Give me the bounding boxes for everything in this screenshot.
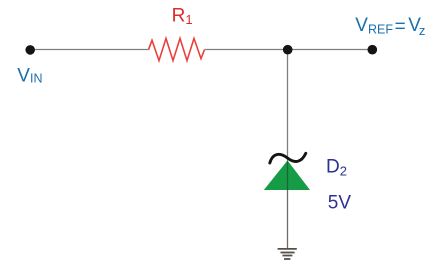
svg-text:5V: 5V [328,193,352,214]
wire: resistor R1 right lead to VREF node [205,49,373,51]
svg-text:VREF=Vz: VREF=Vz [355,15,425,38]
wire: VIN node to resistor R1 left lead [30,49,149,51]
svg-text:R1: R1 [172,5,193,27]
node VIN dot [25,45,35,55]
wire seen through D2 triangle [287,161,289,191]
zener diode D2 anode triangle [264,161,310,191]
svg-text:D2: D2 [326,156,347,178]
wire: zener diode D2 to ground [287,190,289,249]
zener diode D2 cathode tilde bar [270,153,306,163]
svg-text:VIN: VIN [17,66,42,87]
wire: junction down to zener diode D2 [287,50,289,161]
zener diode D2 [264,153,310,190]
junction node at top of D2 branch [283,45,293,55]
resistor R1 [149,38,205,60]
ground [278,249,297,259]
node VREF dot [368,45,378,55]
